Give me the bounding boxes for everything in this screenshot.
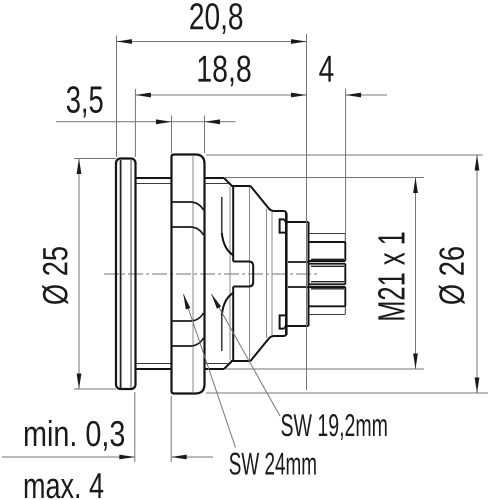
svg-text:20,8: 20,8: [189, 0, 244, 37]
dimension 18,8: [135, 34, 306, 390]
solder pins (3 contacts): [309, 242, 346, 306]
SW 19.2 section: [231, 186, 251, 361]
dimension 20,8: [117, 36, 307, 158]
svg-text:min. 0,3: min. 0,3: [23, 413, 125, 454]
thread section A (between flange and nut): [136, 178, 172, 369]
svg-text:SW 19,2mm: SW 19,2mm: [280, 407, 387, 443]
svg-text:M21 x 1: M21 x 1: [371, 231, 413, 322]
cone shoulder: [251, 186, 287, 361]
leader SW 24mm: [183, 294, 235, 448]
dimension Ø25: [74, 159, 116, 390]
dimension min 0,3 / max 4 (panel thickness): [2, 392, 213, 462]
dimension Ø26: [206, 155, 488, 393]
svg-text:4: 4: [319, 48, 335, 90]
contact shoulder lines: [288, 262, 309, 287]
rear pin slivers: [309, 234, 345, 315]
leader SW 19,2mm: [211, 294, 280, 416]
flange (front, Ø25): [116, 159, 136, 390]
center tongue: [222, 187, 253, 362]
insert front face with clips: [280, 213, 287, 335]
dimension M21 x 1: [225, 178, 424, 370]
tongue side walls: [221, 197, 223, 351]
svg-text:max. 4: max. 4: [23, 465, 104, 500]
svg-text:Ø 26: Ø 26: [433, 246, 472, 305]
svg-text:SW 24mm: SW 24mm: [229, 446, 317, 482]
nut chamfer tangent line: [192, 156, 194, 392]
rear body: [286, 222, 308, 326]
thread A root lines: [137, 184, 172, 364]
dimension 3,5 (nut width): [56, 116, 236, 154]
hex nut SW24 (Ø26): [172, 155, 205, 394]
section tangent lines: [230, 187, 272, 360]
dimension 4 (pin length): [346, 89, 387, 243]
thread section B (right of nut): [205, 178, 233, 369]
svg-text:3,5: 3,5: [66, 80, 104, 122]
svg-text:18,8: 18,8: [196, 48, 251, 90]
pin tangent lines: [311, 259, 344, 289]
centerline axis: [104, 273, 320, 275]
thread B root lines: [205, 184, 229, 364]
svg-text:Ø 25: Ø 25: [36, 246, 75, 305]
nut facet lines: [172, 202, 204, 346]
flange edge tangent lines: [120, 160, 122, 388]
